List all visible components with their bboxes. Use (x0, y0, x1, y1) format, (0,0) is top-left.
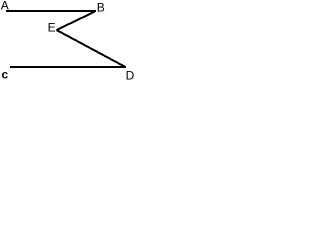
svg-text:c: c (2, 68, 9, 82)
svg-text:B: B (97, 1, 105, 15)
svg-text:E: E (48, 21, 56, 35)
wire: line c (bottom horizontal) (10, 66, 126, 68)
svg-text:D: D (126, 68, 135, 82)
wire: segment E-D (57, 30, 125, 67)
background (0, 0, 135, 82)
wire: line A-B (top horizontal) (6, 10, 96, 12)
wire: segment B-E (57, 12, 95, 30)
